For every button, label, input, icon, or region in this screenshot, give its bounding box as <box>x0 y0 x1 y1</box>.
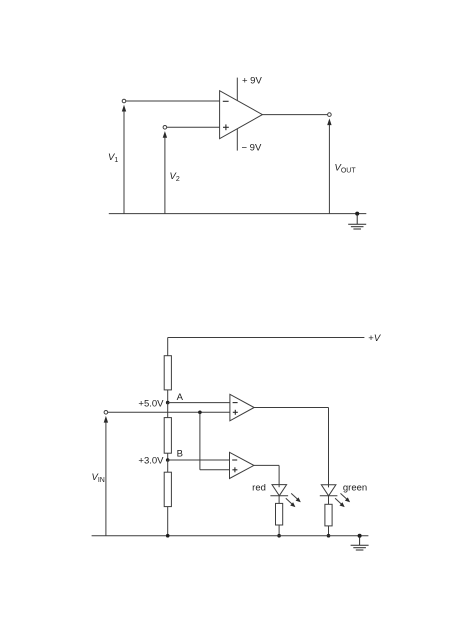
wire output horizontal <box>262 114 329 116</box>
U2 minus pin mark <box>233 402 238 404</box>
wire +V rail <box>168 337 365 339</box>
node junction dot VIN branch <box>198 411 202 415</box>
D2 light arrow 1 <box>341 493 351 502</box>
D2 cathode bar <box>320 495 338 497</box>
wire V2 input horizontal <box>165 126 220 128</box>
op-amp U3 <box>230 452 254 478</box>
wire node B to R3 <box>167 460 169 472</box>
node junction dot ground bottom <box>358 534 362 538</box>
node junction dot divider-rail <box>166 534 170 538</box>
wire U2 output <box>254 407 328 409</box>
LED red D1 <box>272 485 287 496</box>
D1 light arrow 2 <box>286 498 296 507</box>
ground symbol top circuit <box>348 214 366 229</box>
node junction dot ground <box>355 212 359 216</box>
ground symbol bottom circuit <box>351 536 369 550</box>
op-amp U2 <box>230 394 254 421</box>
svg-text:A: A <box>177 392 184 403</box>
wire green branch vertical <box>328 408 330 485</box>
svg-text:+ 9V: + 9V <box>242 76 262 87</box>
svg-text:+5.0V: +5.0V <box>138 398 164 409</box>
node VOUT terminal circle <box>328 113 332 117</box>
U1 plus pin mark <box>223 124 229 130</box>
U1 minus pin mark <box>223 100 229 102</box>
op-amp U1 <box>220 91 263 139</box>
wire VIN branch to U3 plus <box>200 469 230 471</box>
wire ground rail bottom circuit <box>92 535 369 537</box>
D2 anode wire stub <box>328 485 330 488</box>
wire VIN branch vertical <box>199 412 201 470</box>
wire U3 output <box>254 464 279 466</box>
arrow VIN up <box>104 416 108 423</box>
wire ground rail top circuit <box>109 213 367 215</box>
D1 light arrow 1 <box>291 493 301 502</box>
wire R3 to rail <box>167 507 169 536</box>
wire node A to U2 minus <box>168 402 230 404</box>
wire VOUT vertical <box>328 124 330 214</box>
node A junction dot <box>166 401 170 405</box>
wire node B to U3 minus <box>168 459 230 461</box>
svg-text:red: red <box>252 482 266 493</box>
wire V2 vertical <box>164 136 166 214</box>
wire R1 to node A <box>167 390 169 403</box>
arrow V1 up <box>122 105 126 112</box>
resistor R5 <box>325 504 332 526</box>
D1 cathode bar <box>270 495 288 497</box>
resistor R1 <box>164 356 171 390</box>
node junction dot green branch <box>327 534 331 538</box>
wire D1 to R4 <box>278 496 280 504</box>
wire supply vertical +9V/-9V <box>236 78 238 151</box>
LED green D2 <box>321 485 336 496</box>
U2 plus pin mark <box>233 410 238 415</box>
resistor R2 <box>164 418 171 454</box>
D1 anode wire stub <box>278 485 280 488</box>
svg-text:B: B <box>177 449 183 460</box>
arrow V2 up <box>163 131 167 138</box>
arrow VOUT up <box>327 118 331 125</box>
svg-text:green: green <box>343 483 367 494</box>
wire red branch vertical <box>278 465 280 484</box>
wire V1 input horizontal <box>124 100 220 102</box>
D2 light arrow 2 <box>335 498 345 507</box>
wire V1 vertical <box>123 110 125 214</box>
wire VIN vertical <box>105 421 107 536</box>
wire R4 to rail <box>278 525 280 536</box>
wire node A to R2 <box>167 403 169 418</box>
resistor R4 <box>276 503 283 525</box>
U3 plus pin mark <box>232 467 237 472</box>
resistor R3 <box>164 472 171 506</box>
node junction dot red branch <box>277 534 281 538</box>
node V1 terminal circle <box>122 99 126 103</box>
node VIN terminal circle <box>104 411 108 415</box>
wire D2 to R5 <box>328 496 330 505</box>
svg-text:+3.0V: +3.0V <box>138 455 164 466</box>
svg-text:+V: +V <box>368 333 382 344</box>
node V2 terminal circle <box>163 126 167 130</box>
U3 minus pin mark <box>232 459 237 461</box>
node B junction dot <box>166 458 170 462</box>
wire VIN horizontal to U2 plus <box>108 411 230 413</box>
wire chain top <box>167 338 169 356</box>
wire R5 to rail <box>328 526 330 536</box>
wire R2 to node B <box>167 453 169 460</box>
svg-text:− 9V: − 9V <box>242 142 262 153</box>
